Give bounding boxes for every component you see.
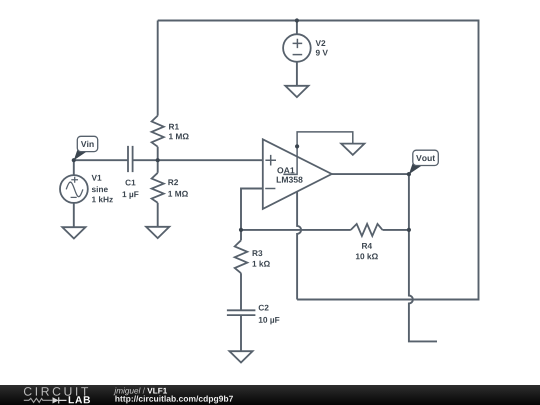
V1 plus sign: [71, 177, 78, 183]
V2 plus sign: [293, 39, 303, 48]
label R3 designator and value: [253, 250, 270, 266]
node feedback/R3 junction dot: [239, 228, 243, 232]
label R2 designator and value: [168, 179, 188, 196]
wire R2 bottom lead to ground: [157, 203, 159, 227]
wire feedback node to R4 left: [241, 229, 351, 231]
capacitor C2 plates: [227, 310, 256, 315]
label V2 designator and value: [316, 40, 328, 55]
wire op-amp output to Vout node: [332, 173, 409, 175]
op-amp non-inverting + symbol: [265, 155, 276, 166]
V1 sine symbol: [66, 182, 83, 197]
node Vout junction dot: [407, 172, 411, 176]
op-amp OA1 triangle: [263, 139, 332, 209]
ground below C2: [229, 351, 252, 362]
wire R4 right to output vertical: [383, 229, 409, 231]
node C1/R1/R2 junction dot: [156, 158, 160, 162]
node R4/output junction dot: [407, 228, 411, 232]
wire R3 bottom lead to C2: [240, 273, 242, 310]
op-amp inverting - symbol: [265, 188, 275, 190]
node Vin junction dot: [72, 158, 76, 162]
footer logo LAB text: [69, 396, 90, 403]
wire op-amp V+ pin underline through top edge to ground lead: [283, 132, 353, 175]
ground below V1: [62, 227, 85, 238]
label R4 designator and value: [356, 243, 378, 259]
voltage source V1 circle: [60, 175, 88, 203]
wire C1 right plate to op-amp non-inverting input: [133, 159, 263, 161]
V1 minus sign: [71, 196, 77, 198]
wire R2 top lead: [157, 160, 159, 173]
wire V1 top lead: [73, 160, 75, 175]
label C2 designator and value: [259, 305, 280, 325]
wire Vout node down with hop over bottom return, then right stub: [409, 174, 437, 341]
wire R3 top lead: [240, 230, 242, 240]
wire R1 top lead from rail: [157, 21, 159, 116]
wire V2 bottom lead to ground: [296, 62, 298, 86]
footer bar: [0, 385, 540, 405]
ground at op-amp V+: [341, 144, 364, 155]
wire +9V top rail from R1 top across to right edge, down, and bottom return to op-amp V- pin: [158, 21, 479, 300]
label R1 designator and value: [169, 124, 189, 139]
wire op-amp V- pin down with hop over feedback wire: [297, 192, 301, 300]
flag Vout: [409, 150, 438, 174]
ground below R2: [146, 227, 169, 238]
wire V2 top lead to rail: [296, 21, 298, 35]
label V1 designator and value: [92, 175, 113, 202]
wire Vin node to C1 left plate: [74, 159, 128, 161]
wire R1 bottom lead to input node: [157, 147, 159, 161]
footer url: [115, 395, 233, 403]
wire V1 bottom lead to ground: [73, 203, 75, 227]
voltage source V2 circle: [283, 34, 311, 62]
resistor R3: [235, 240, 248, 273]
footer logo resistor-diode drawing: [24, 398, 53, 402]
V2 minus sign: [293, 54, 303, 56]
label LM358 part number: [277, 177, 303, 183]
wire C2 bottom lead to ground: [240, 315, 242, 351]
node V2 rail junction dot: [295, 18, 299, 22]
resistor R2: [152, 173, 164, 203]
label OA1 designator: [277, 167, 294, 173]
ground below V2: [285, 86, 308, 97]
node op-amp V+ pin junction dot: [295, 144, 299, 148]
flag Vin: [74, 136, 98, 160]
wire op-amp inverting input left and down to feedback node: [241, 189, 262, 230]
label C1 designator and value: [123, 180, 139, 199]
footer CircuitLab logo CIRCUIT text: [24, 387, 88, 396]
resistor R4: [351, 224, 383, 236]
capacitor C1 plates: [128, 146, 133, 172]
footer author jmiguel / VLF1: [113, 388, 167, 396]
resistor R1: [152, 116, 164, 147]
